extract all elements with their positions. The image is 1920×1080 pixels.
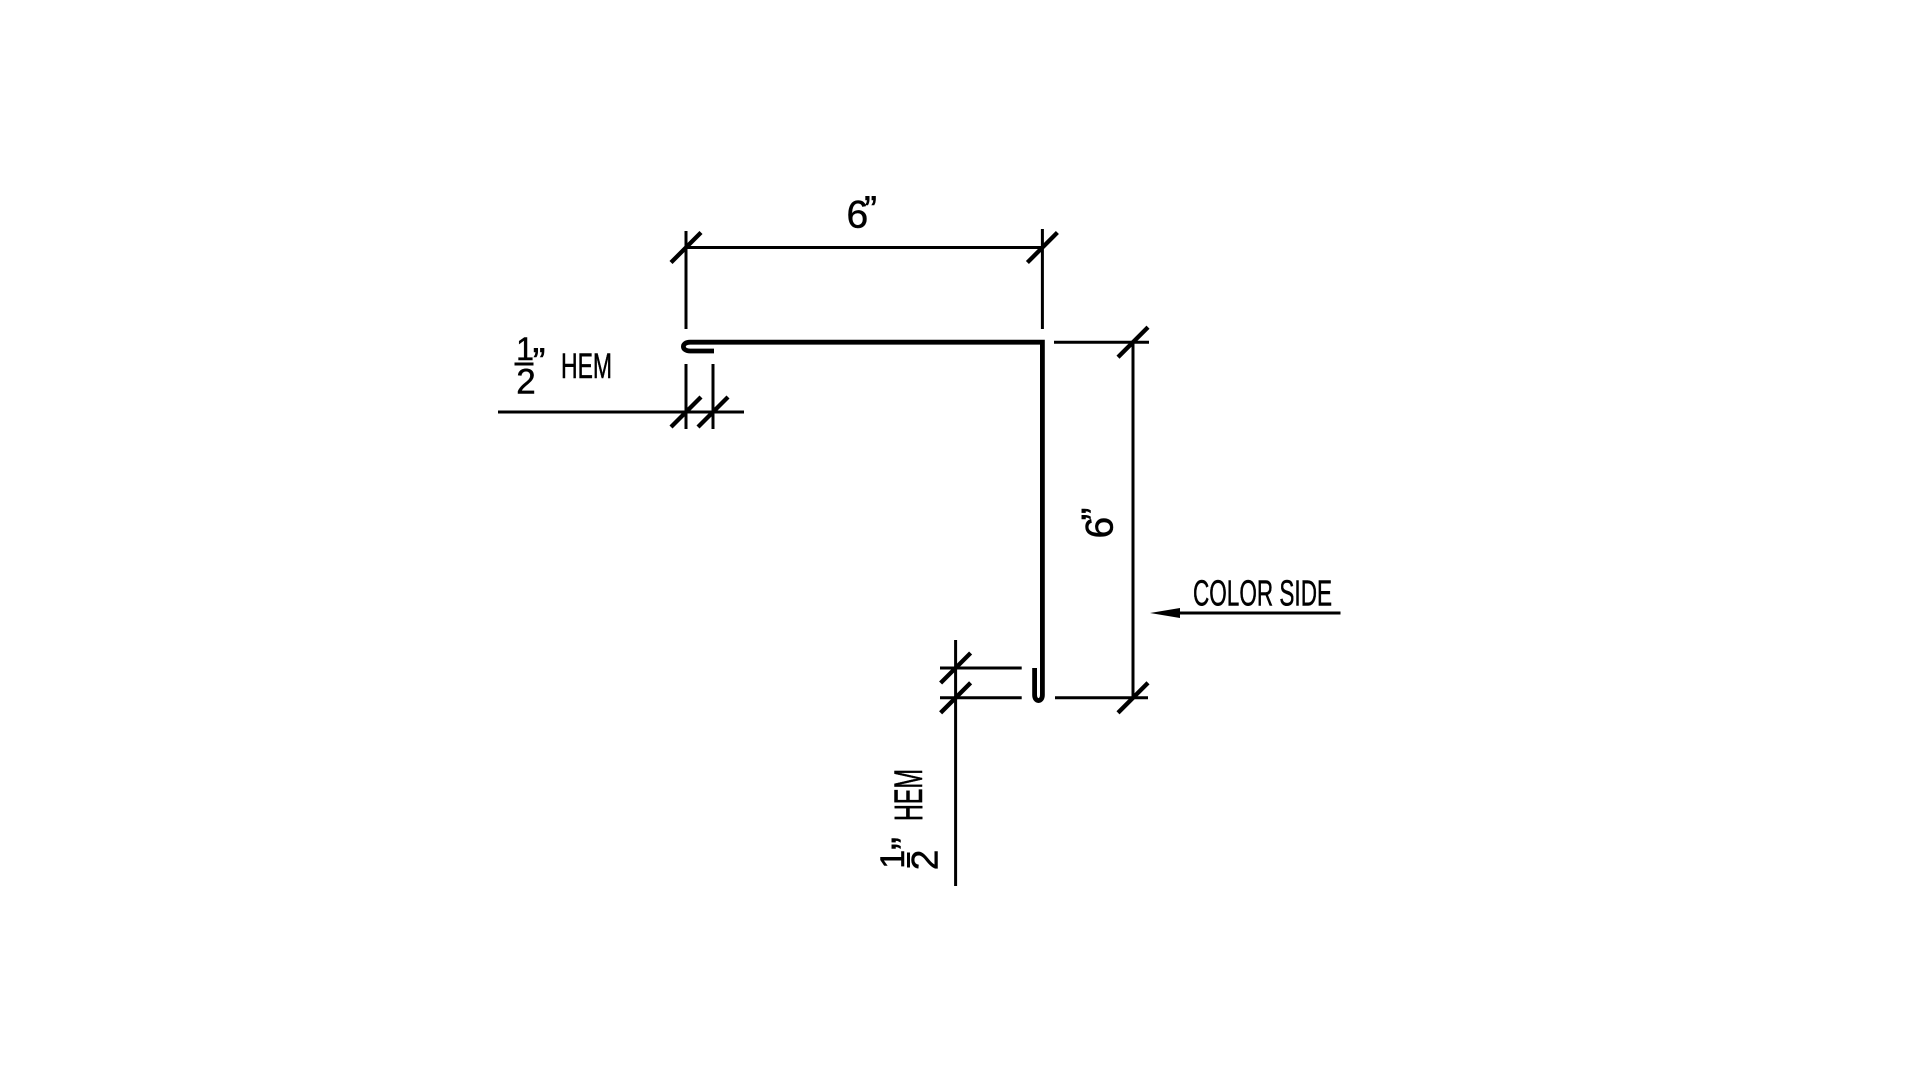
right dimension tick bottom (1118, 683, 1148, 713)
right dimension tick top (1118, 327, 1148, 357)
svg-text:”: ” (864, 189, 877, 232)
svg-text:COLOR SIDE: COLOR SIDE (1193, 573, 1332, 614)
left hem dimension tick 2 (698, 397, 728, 427)
svg-text:HEM: HEM (561, 347, 612, 386)
bottom hem dimension leader line (954, 640, 957, 886)
svg-text:”: ” (533, 341, 546, 384)
bottom hem dimension extension line 2 (940, 696, 1022, 699)
left hem dimension extension line 1 (685, 364, 688, 429)
svg-text:2: 2 (904, 850, 945, 871)
left hem label 1/2" HEM (515, 331, 613, 401)
svg-text:”: ” (885, 837, 928, 850)
right dimension text 6" rotated (1075, 508, 1122, 539)
top dimension tick left (671, 233, 701, 263)
COLOR SIDE leader line (1177, 612, 1341, 615)
left hem dimension leader line (498, 411, 744, 414)
bottom hem dimension extension line 1 (940, 667, 1022, 670)
right dimension line (1132, 342, 1135, 698)
bottom hem label 1/2" HEM rotated (874, 769, 945, 870)
svg-text:HEM: HEM (887, 769, 931, 821)
flashing profile (6x6 corner with 1/2 inch hems) (683, 342, 1042, 700)
right dimension extension line bottom (1055, 696, 1148, 699)
svg-text:”: ” (1075, 508, 1118, 521)
left hem dimension tick 1 (671, 397, 701, 427)
COLOR SIDE arrowhead (1150, 608, 1180, 618)
top dimension line (686, 246, 1042, 249)
top dimension tick right (1027, 233, 1057, 263)
right dimension extension line top (1054, 341, 1149, 344)
top dimension extension line right (1041, 229, 1044, 329)
left hem dimension extension line 2 (712, 364, 715, 429)
bottom hem dimension tick 2 (941, 683, 971, 713)
top dimension text 6" (847, 189, 878, 237)
top dimension extension line left (685, 231, 688, 329)
bottom hem dimension tick 1 (941, 653, 971, 683)
